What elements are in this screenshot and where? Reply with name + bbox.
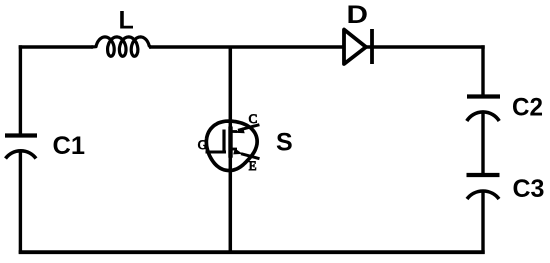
wire right rail middle xyxy=(481,113,484,174)
capacitor C1 xyxy=(5,136,37,159)
wire top rail right segment xyxy=(366,45,485,48)
gate lead xyxy=(206,151,227,154)
transistor body circle xyxy=(206,121,257,170)
wire transistor branch vertical xyxy=(229,47,233,252)
capacitor C2 xyxy=(467,97,500,122)
body bar xyxy=(228,127,232,158)
wire left rail lower xyxy=(19,152,22,254)
wire bottom rail xyxy=(19,250,485,254)
wire left rail upper xyxy=(19,45,22,134)
collector arrowhead xyxy=(234,127,245,133)
diode D xyxy=(344,29,372,64)
svg-text:C1: C1 xyxy=(53,132,86,160)
gate bar xyxy=(222,130,225,153)
collector lead xyxy=(238,125,259,131)
capacitor C3 xyxy=(467,175,500,199)
wire top rail left segment xyxy=(19,45,93,48)
svg-text:C3: C3 xyxy=(513,175,545,203)
inductor L1 coil xyxy=(92,37,151,56)
transistor S (IGBT) xyxy=(206,121,260,170)
wire top rail middle segment xyxy=(149,45,344,48)
wire right rail lower xyxy=(481,191,484,254)
wire right rail upper xyxy=(481,45,484,95)
svg-text:E: E xyxy=(249,158,257,173)
emitter arrowhead xyxy=(233,148,243,154)
svg-text:L: L xyxy=(119,7,134,35)
collector stub xyxy=(231,130,237,133)
svg-text:C2: C2 xyxy=(512,94,543,122)
svg-text:S: S xyxy=(276,129,293,157)
svg-text:D: D xyxy=(347,1,369,29)
emitter lead xyxy=(241,154,260,159)
svg-text:C: C xyxy=(249,111,258,126)
svg-text:G: G xyxy=(198,137,207,152)
emitter stub xyxy=(231,148,237,151)
